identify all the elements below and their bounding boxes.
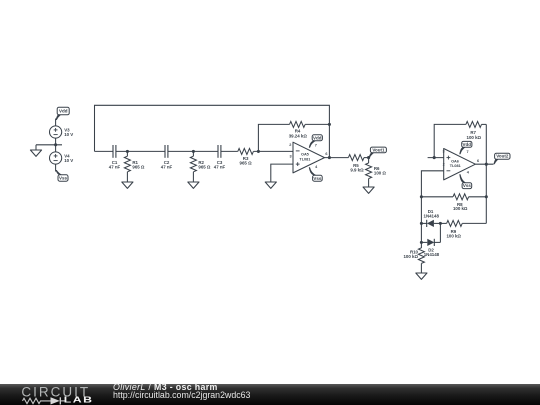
node D1/R9 junction — [439, 222, 442, 225]
svg-text:LAB: LAB — [64, 396, 94, 405]
node R8 right junction — [485, 195, 488, 198]
wire output OA6 — [475, 163, 493, 165]
wire non-inverting input stub — [428, 157, 444, 159]
ground (R1) — [122, 182, 133, 188]
svg-text:Vss: Vss — [463, 183, 472, 188]
resistor R1 — [124, 151, 145, 182]
svg-text:3: 3 — [290, 155, 292, 159]
svg-text:100 kΩ: 100 kΩ — [446, 233, 461, 238]
capacitor C1 — [109, 145, 121, 169]
ground (supply) — [30, 145, 41, 157]
node D1 left junction — [420, 222, 423, 225]
ground (OA5 +) — [265, 182, 276, 188]
resistor R9 — [440, 220, 486, 238]
svg-text:47 nF: 47 nF — [214, 164, 226, 169]
wire V3 to V4 — [55, 138, 57, 152]
svg-text:Vss: Vss — [59, 176, 68, 181]
svg-text:OA5: OA5 — [301, 153, 309, 157]
wire R5 to node — [364, 157, 369, 159]
svg-text:2: 2 — [443, 163, 445, 167]
wire main line segment 5 (to op-amp inverting input) — [253, 150, 293, 152]
node D2 left junction — [420, 241, 423, 244]
net flag Vout2 — [493, 153, 510, 164]
CircuitLab logo — [0, 384, 110, 405]
node Vout1 junction — [367, 156, 370, 159]
ground (R10) — [416, 273, 427, 279]
resistor R10 — [403, 248, 424, 273]
svg-text:Vss: Vss — [313, 176, 322, 181]
wire inverting input — [421, 171, 443, 248]
svg-text:7: 7 — [467, 150, 469, 154]
svg-text:1N4148: 1N4148 — [424, 252, 440, 257]
ground (R6) — [363, 187, 374, 193]
svg-text:6: 6 — [325, 152, 327, 156]
voltage source V4 — [50, 152, 74, 164]
svg-text:TL081: TL081 — [299, 157, 310, 161]
wire feedback loop (top) — [95, 105, 330, 157]
svg-text:10 V: 10 V — [64, 132, 73, 137]
svg-text:7: 7 — [315, 143, 317, 147]
wire to ground — [36, 144, 62, 146]
capacitor C3 — [214, 145, 226, 169]
node R4 left junction — [257, 150, 260, 153]
node R2 junction — [192, 150, 195, 153]
diode D2 1N4148 — [421, 239, 440, 257]
svg-text:Vout2: Vout2 — [496, 154, 509, 159]
resistor R3 — [238, 148, 254, 165]
footer bar — [0, 384, 540, 405]
wire main line segment 2 — [116, 150, 165, 152]
svg-text:TL081: TL081 — [450, 164, 461, 168]
svg-text:47 nF: 47 nF — [109, 164, 121, 169]
svg-text:965 Ω: 965 Ω — [198, 164, 211, 169]
wire D2 to D1 node — [439, 223, 441, 242]
node output junction — [485, 163, 488, 166]
op-amp OA6 TL081 — [442, 149, 479, 180]
node output/feedback junction — [328, 156, 331, 159]
svg-text:100 kΩ: 100 kΩ — [467, 135, 482, 140]
resistor R5 — [348, 155, 364, 173]
svg-text:Vout1: Vout1 — [372, 147, 385, 152]
svg-text:1N4148: 1N4148 — [424, 213, 440, 218]
wire main line segment 1 — [95, 150, 114, 152]
svg-text:3: 3 — [442, 149, 444, 153]
net flag Vdd (OA5) — [309, 135, 323, 148]
net flag Vdd (supply) — [56, 107, 70, 120]
resistor R8 — [421, 194, 486, 211]
node R1 junction — [126, 150, 129, 153]
wire V4 to Vss — [55, 164, 57, 171]
svg-text:6: 6 — [477, 159, 479, 163]
net flag Vdd (OA6) — [459, 141, 472, 154]
svg-text:100 kΩ: 100 kΩ — [453, 206, 468, 211]
diode D1 1N4148 — [421, 209, 440, 227]
net flag Vss (supply) — [56, 170, 68, 181]
wire main line segment 4 — [221, 150, 238, 152]
net flag Vss (OA6) — [459, 174, 471, 188]
ground (R2) — [188, 182, 199, 188]
wire main line segment 3 — [168, 150, 218, 152]
svg-text:965 Ω: 965 Ω — [132, 164, 145, 169]
svg-text:4: 4 — [467, 170, 470, 174]
svg-text:39.24 kΩ: 39.24 kΩ — [289, 133, 308, 138]
svg-text:9.9 kΩ: 9.9 kΩ — [350, 168, 364, 173]
svg-text:47 nF: 47 nF — [161, 164, 173, 169]
svg-text:OA6: OA6 — [451, 159, 459, 163]
wire non-inverting input to ground — [271, 164, 293, 182]
net flag Vout1 — [369, 147, 387, 158]
net flag Vss (OA5) — [309, 167, 322, 181]
resistor R2 — [190, 151, 211, 182]
op-amp OA5 TL081 — [289, 142, 327, 173]
resistor R4 (feedback) — [258, 121, 329, 151]
wire Vdd to V3 — [55, 119, 57, 127]
node R7 left junction — [433, 156, 436, 159]
voltage source V3 — [50, 126, 74, 138]
node supply midpoint junction — [54, 143, 57, 146]
svg-text:Vdd: Vdd — [313, 135, 322, 140]
node R8 left junction — [420, 195, 423, 198]
svg-text:4: 4 — [315, 165, 318, 169]
node R4 right junction — [328, 123, 331, 126]
svg-text:100 Ω: 100 Ω — [374, 170, 387, 175]
footer metadata text — [113, 383, 250, 400]
capacitor C2 — [161, 145, 173, 169]
svg-text:100 kΩ: 100 kΩ — [403, 254, 418, 259]
wire output OA5 — [325, 157, 349, 159]
svg-text:Vdd: Vdd — [59, 109, 68, 114]
wire right bus — [485, 124, 487, 223]
svg-text:10 V: 10 V — [64, 158, 73, 163]
resistor R7 (feedback) — [434, 121, 486, 157]
svg-text:2: 2 — [289, 143, 291, 147]
resistor R6 — [366, 158, 387, 187]
svg-text:965 Ω: 965 Ω — [240, 160, 253, 165]
svg-text:Vdd: Vdd — [463, 142, 472, 147]
